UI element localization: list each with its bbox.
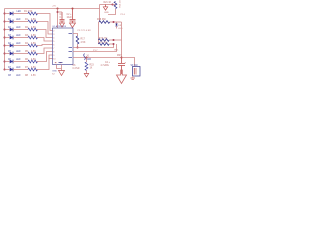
diode D5 <box>10 44 13 48</box>
wire bus to diode D5 <box>5 45 10 47</box>
wires right of U1 <box>73 44 122 58</box>
wire right side of loop <box>121 22 123 40</box>
svg-text:LED: LED <box>118 28 123 30</box>
IC U1 <box>52 6 73 65</box>
wire bus to diode D3 <box>5 29 10 31</box>
svg-text:4.5K: 4.5K <box>31 75 36 77</box>
node C3 tap <box>57 11 59 13</box>
right network: top resistor R18 <box>97 9 123 58</box>
svg-text:RST: RST <box>117 55 122 57</box>
resistor R1 <box>28 12 37 15</box>
capacitor C2 <box>70 9 76 24</box>
RST node <box>121 57 123 59</box>
node R17 to P1 <box>77 47 79 49</box>
svg-text:LED: LED <box>16 27 21 29</box>
ground arrow small <box>105 5 107 7</box>
svg-text:P1.7: P1.7 <box>93 50 98 52</box>
svg-text:U1 AT89C205: U1 AT89C205 <box>53 25 67 28</box>
svg-text:P3.7 P1.0 RX: P3.7 P1.0 RX <box>78 30 92 32</box>
node row 2 bus tap <box>4 21 6 23</box>
wire bus to diode D1 <box>5 13 10 15</box>
svg-text:R21 1K: R21 1K <box>119 0 121 8</box>
wire left side of loop <box>98 22 100 44</box>
diode D9 indicator <box>116 22 118 24</box>
diode D7 <box>10 60 13 64</box>
wire R7 to U1 pin 7 <box>37 52 53 62</box>
wire R1 to U1 pin 1 <box>37 14 53 31</box>
svg-text:R19 360: R19 360 <box>99 38 108 40</box>
wire bus to diode D8 <box>5 69 10 71</box>
svg-text:C2 +: C2 + <box>67 14 73 16</box>
resistor R8 <box>28 68 37 71</box>
wire diode to resistor R6 <box>13 53 28 55</box>
wire diode to resistor R1 <box>13 13 28 15</box>
resistor R4 <box>28 36 37 39</box>
ground arrow U1 <box>59 71 65 76</box>
U1 bottom pins / ground <box>52 65 65 76</box>
top-right mini circuit <box>100 0 126 16</box>
transistor area / pull-up resistor R17 <box>55 30 91 63</box>
resistor R19 <box>99 39 110 42</box>
wire R8 to U1 pin 8 <box>37 55 53 70</box>
resistor R23 pulldown <box>84 57 94 78</box>
svg-text:4.7uF8s: 4.7uF8s <box>101 65 110 67</box>
svg-text:GND: GND <box>52 71 57 73</box>
wire U1 to node A <box>73 44 114 48</box>
wire diode to resistor R3 <box>13 29 28 31</box>
wire left input bus <box>4 9 6 70</box>
resistor R2 <box>28 20 37 23</box>
pin name bottom <box>59 62 63 64</box>
wire bus to diode D4 <box>5 37 10 39</box>
wire bus to diode D6 <box>5 53 10 55</box>
svg-text:R18 360: R18 360 <box>97 19 106 21</box>
capacitor C4 <box>118 58 125 75</box>
U1 pin 10 stub <box>49 58 53 60</box>
resistor R20 <box>99 43 110 46</box>
wire R3 to U1 pin 3 <box>37 30 53 38</box>
diode D3 <box>10 28 13 32</box>
svg-text:LED: LED <box>16 59 21 61</box>
capacitor C3 <box>60 12 65 23</box>
diode D1 <box>10 12 13 16</box>
diode D6 <box>10 52 13 56</box>
svg-text:10uF: 10uF <box>67 17 73 19</box>
node row 8 bus tap <box>4 69 6 71</box>
svg-text:LED: LED <box>16 51 21 53</box>
wire U1 RST long <box>73 57 122 59</box>
diode D2 <box>10 20 13 24</box>
wire bus to diode D2 <box>5 21 10 23</box>
wire diode to resistor R2 <box>13 21 28 23</box>
wire VCC drop to U1 <box>57 9 59 29</box>
svg-text:0.47uF: 0.47uF <box>73 68 81 70</box>
resistor R6 <box>28 52 37 55</box>
node row 6 bus tap <box>4 53 6 55</box>
node VCC tap U1 <box>57 8 59 10</box>
wire loop to RST <box>121 40 123 58</box>
wire diode to resistor R4 <box>13 37 28 39</box>
ground arrow big <box>117 70 127 84</box>
resistor R7 <box>28 60 37 63</box>
ground bars SW1 <box>131 77 136 79</box>
svg-text:P1.0: P1.0 <box>121 14 126 16</box>
resistor R22 vertical <box>113 4 116 6</box>
svg-text:LED: LED <box>16 67 21 69</box>
svg-text:4.5K: 4.5K <box>81 41 86 44</box>
switch SW1 <box>122 58 141 80</box>
wire diode to resistor R5 <box>13 45 28 47</box>
wire pin to R17 <box>73 34 78 37</box>
svg-text:C4 +: C4 + <box>105 62 111 64</box>
diode D4 <box>10 36 13 40</box>
svg-text:LED: LED <box>17 11 22 13</box>
wire R17 bottom <box>77 44 79 48</box>
resistor R17 <box>76 36 79 44</box>
svg-text:12M: 12M <box>87 59 92 61</box>
resistor R3 <box>28 28 37 31</box>
wire +5V top rail <box>5 8 100 10</box>
wire bus to diode D7 <box>5 61 10 63</box>
ground arrow C2 <box>70 23 76 28</box>
wire R4 to U1 pin 4 <box>37 38 53 42</box>
ground arrow C3 <box>60 23 65 27</box>
diode D8 <box>10 68 13 72</box>
svg-text:1K: 1K <box>90 68 93 70</box>
svg-text:LED: LED <box>16 35 21 37</box>
svg-text:LED: LED <box>16 19 21 21</box>
svg-text:LED: LED <box>16 43 21 45</box>
svg-text:R21 1K: R21 1K <box>104 2 112 4</box>
wire C3 tap <box>58 11 63 13</box>
node row 1 bus tap <box>4 13 6 15</box>
wire y4 <box>100 4 113 6</box>
node C2 tap <box>72 8 74 10</box>
wire R5 to U1 pin 5 <box>37 45 53 46</box>
pin numbers bottom <box>55 61 57 64</box>
node row 3 bus tap <box>4 29 6 31</box>
wire R2 to U1 pin 2 <box>37 22 53 35</box>
pin names right <box>69 34 73 58</box>
crystal X1 <box>84 54 91 61</box>
input channels <box>4 12 56 77</box>
wire diode to resistor R8 <box>13 69 28 71</box>
svg-text:+5V: +5V <box>52 6 56 8</box>
svg-text:LED: LED <box>16 75 21 77</box>
resistor R5 <box>28 44 37 47</box>
wire diode to resistor R7 <box>13 61 28 63</box>
wire R6 to U1 pin 6 <box>37 48 53 54</box>
node row 7 bus tap <box>4 61 6 63</box>
wire U1 to node B <box>73 44 117 52</box>
node row 4 bus tap <box>4 37 6 39</box>
node row 5 bus tap <box>4 45 6 47</box>
svg-text:R23: R23 <box>90 65 95 67</box>
svg-text:GND: GND <box>104 12 109 14</box>
